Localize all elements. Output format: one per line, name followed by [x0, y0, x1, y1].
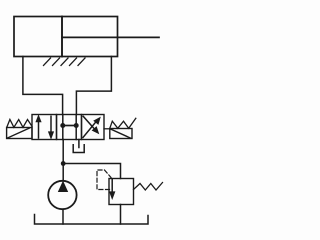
valve V1 right box: [82, 115, 105, 140]
spring RV1: [134, 183, 163, 191]
mounting hatch: [44, 58, 86, 66]
node J1 junction dot: [61, 161, 66, 166]
valve V1 crossed arrow SE: [83, 116, 99, 134]
spring left: [7, 120, 32, 128]
solenoid left: [7, 128, 32, 139]
tank T2 main: [35, 215, 149, 225]
pump P1 flow triangle: [58, 181, 68, 192]
relief valve RV1 arrow: [109, 179, 115, 200]
pilot line dashed: [97, 170, 111, 190]
node dot A: [60, 123, 65, 128]
wire pump suction: [62, 209, 64, 224]
valve V1 center connector: [63, 125, 76, 127]
valve V1 crossed arrow NE: [83, 117, 101, 138]
node dot B: [74, 123, 79, 128]
solenoid right stub: [104, 128, 110, 130]
pump P1: [48, 181, 76, 209]
tank T1: [73, 145, 84, 153]
valve V1 center box: [57, 115, 82, 140]
solenoid right: [110, 129, 132, 139]
cylinder C1 piston rod: [62, 36, 159, 38]
relief valve RV1 body: [109, 179, 134, 205]
wire P pressure line: [62, 140, 64, 181]
valve V1 blocked port line B: [75, 115, 77, 140]
wire A cap-end line: [23, 57, 63, 115]
wire RV1 drain: [120, 205, 122, 225]
valve V1 blocked port line A: [62, 115, 64, 140]
cylinder C1 body: [14, 17, 118, 57]
cylinder C1 piston: [61, 17, 63, 57]
valve V1 left box: [32, 115, 57, 140]
spring right: [110, 118, 136, 128]
valve V1 left box up arrow: [35, 114, 41, 138]
tank T1 valve drain stub: [78, 140, 80, 148]
valve V1 left box down arrow: [48, 116, 54, 139]
wire supply to relief valve: [63, 164, 120, 179]
wire B rod-end line: [76, 57, 111, 115]
